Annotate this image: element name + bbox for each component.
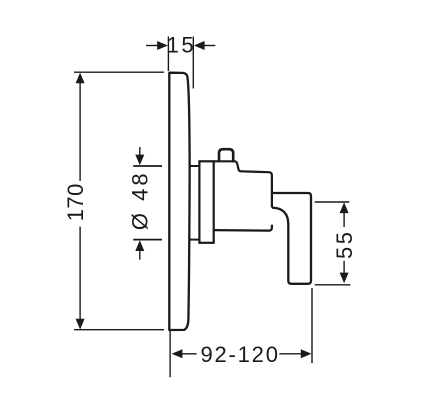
dim 55: upper arrowhead (points up)	[340, 202, 349, 213]
svg-text:Ø 48: Ø 48	[128, 170, 153, 230]
dim 92-120: right arrowhead (points right)	[301, 349, 312, 358]
dim 170: upper dimension line	[79, 82, 81, 181]
dim 170: lower dimension line	[79, 227, 81, 321]
valve neck cylinder bottom edge	[190, 239, 200, 241]
dim 170: lower arrowhead	[76, 319, 85, 330]
dim 15: right arrow line	[204, 45, 216, 47]
dim 92-120: right extension line	[311, 288, 313, 363]
dim 170: upper arrowhead	[76, 73, 85, 84]
dim 92-120: left arrowhead (points left)	[172, 349, 183, 358]
dim 15: left arrow line	[146, 45, 158, 47]
dim 55: upper shaft	[343, 213, 345, 228]
dim Ø48: lower shaft	[139, 251, 141, 260]
lever handle	[272, 193, 311, 284]
cartridge housing body: right edge lower stub and bottom edge	[214, 225, 272, 231]
dim 92-120: left shaft	[182, 353, 197, 355]
dim 55: bottom extension line	[315, 284, 351, 286]
dim Ø48: bottom tick	[133, 239, 162, 241]
dim Ø48: lower arrowhead (points up)	[135, 240, 144, 251]
escutcheon plate (side view)	[169, 73, 189, 330]
dim 92-120: right shaft	[279, 353, 301, 355]
dim 170: bottom extension line	[74, 329, 164, 331]
knob on top of housing	[219, 149, 233, 162]
dim 15: left arrowhead	[157, 41, 168, 50]
dim 55: top extension line	[315, 201, 350, 203]
svg-text:15: 15	[167, 32, 196, 57]
svg-text:92-120: 92-120	[200, 342, 279, 367]
dim 15: right extension line	[192, 37, 194, 89]
valve neck cylinder top edge	[190, 165, 200, 167]
dim 55: lower shaft	[343, 261, 345, 275]
dim 15: right arrowhead	[194, 41, 205, 50]
svg-text:170: 170	[63, 183, 88, 221]
svg-text:55: 55	[332, 230, 357, 259]
dim 15: left extension line	[167, 37, 169, 72]
sleeve flange	[199, 161, 213, 243]
dim 170: top extension line	[74, 71, 164, 73]
dim Ø48: upper shaft	[139, 147, 141, 155]
dim 92-120: left extension line	[169, 330, 171, 378]
cartridge housing body: top edge, step and right edge upper part	[214, 161, 272, 207]
dim 55: lower arrowhead (points down)	[340, 273, 349, 284]
dim Ø48: top tick	[133, 165, 162, 167]
dim Ø48: upper arrowhead (points down)	[135, 155, 144, 166]
